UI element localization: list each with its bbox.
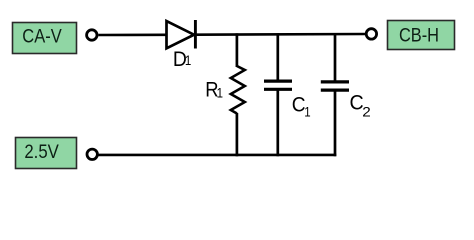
svg-text:2: 2 [362,103,371,119]
terminal (bottom-left, open circle) [87,149,97,159]
terminal (top-left, open circle) [87,30,97,40]
node 2.5V [16,138,77,169]
diode D1 [167,20,196,49]
svg-text:CA-V: CA-V [22,27,62,48]
capacitor C2 (vertical) with connecting stubs [321,33,349,156]
svg-text:1: 1 [185,52,192,68]
svg-text:1: 1 [217,84,224,100]
terminal (top-right, open circle) [366,29,376,39]
resistor R1 (vertical, zigzag) with connecting stubs [231,33,245,156]
node CB-H [388,21,455,50]
node CA-V [13,23,77,54]
svg-text:1: 1 [304,104,311,120]
capacitor C1 (vertical) with connecting stubs [264,33,292,156]
label R1 [205,79,223,102]
wire top: diode cathode to right terminal [195,33,366,36]
wire bottom: terminal to C2 branch [97,154,336,157]
wire top-left: terminal to diode anode [98,33,166,36]
svg-text:CB-H: CB-H [399,26,439,47]
label D1 [173,48,192,71]
svg-text:2.5V: 2.5V [24,142,59,163]
label C2 [350,92,372,120]
label C1 [292,93,311,119]
